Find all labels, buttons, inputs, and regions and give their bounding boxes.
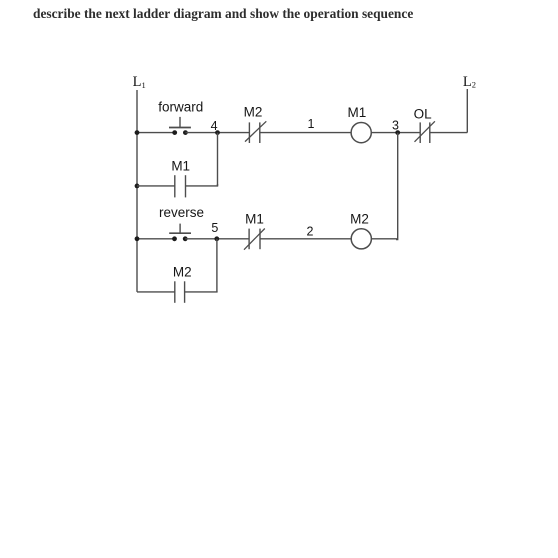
label node 3 [392,119,399,133]
junction dot rail L1 / rung 2 [135,236,140,241]
rail L2 [466,89,468,133]
node 3 junction dot [395,130,400,135]
contact M1 normally-closed (rung 2) [244,229,265,250]
wire holding branch M2 left (L1 to contact M2) [137,291,175,293]
label M1 (coil rung 1) [348,105,367,120]
svg-text:describe the next ladder diagr: describe the next ladder diagram and sho… [33,6,413,21]
label L1 [133,74,146,90]
label forward [158,99,203,114]
wire contact M2 to coil M1 [260,132,351,134]
coil M2 [351,229,371,249]
svg-text:2: 2 [307,224,314,238]
wire coil M1 to contact OL [372,132,421,134]
wire riser node 4 to holding branch [217,133,219,186]
node 4 junction dot [215,130,220,135]
contact M1 normally-open (holding) [175,175,186,197]
label OL [414,107,433,122]
wire reverse button to contact M1 [185,238,249,240]
label M2 (NC contact rung 1) [244,105,263,120]
svg-text:forward: forward [158,99,203,114]
wire forward button to contact M2 [185,132,249,134]
contact OL normally-closed (overload) [415,121,435,143]
contact M2 normally-open (holding) [175,281,185,303]
svg-text:3: 3 [392,119,399,133]
label node 4 [211,119,218,133]
wire contact OL to rail L2 [430,132,468,134]
label M2 (coil rung 2) [350,212,369,227]
junction dot rail L1 / rung 1 [135,130,140,135]
label node 2 [307,224,314,238]
svg-text:OL: OL [414,107,433,122]
coil M1 [351,123,371,143]
wire rung 1 from L1 to forward button [137,132,175,134]
svg-text:reverse: reverse [159,205,204,220]
wire holding branch right (contact M1 to node 4 riser) [186,184,219,186]
svg-text:M2: M2 [173,265,192,280]
label M2 (holding contact) [173,265,192,280]
svg-text:M1: M1 [171,158,190,173]
node 5 junction dot [214,236,219,241]
label node 5 [211,221,218,235]
label M1 (holding contact) [171,158,190,173]
pushbutton reverse (NO momentary) [169,224,191,242]
pushbutton forward (NO momentary) [169,117,191,135]
svg-text:M1: M1 [245,212,264,227]
rail L1 [136,90,138,292]
svg-text:5: 5 [211,221,218,235]
svg-text:M1: M1 [348,105,367,120]
label reverse [159,205,204,220]
label M1 (NC contact rung 2) [245,212,264,227]
wire coil M2 to node 3 riser [372,238,398,240]
label node 1 [308,117,315,131]
svg-text:4: 4 [211,119,218,133]
svg-text:M2: M2 [244,105,263,120]
svg-text:M2: M2 [350,212,369,227]
wire holding branch M2 right (contact M2 to node 5 riser) [185,291,218,293]
wire holding branch left (L1 to contact M1) [137,185,175,187]
svg-text:1: 1 [308,117,315,131]
label L2 [463,74,476,90]
wire riser node 5 to holding branch M2 [216,239,218,292]
wire contact M1 to coil M2 [260,238,351,240]
wire riser node 3 to rung 2 [396,133,398,240]
contact M2 normally-closed [245,121,266,143]
junction dot rail L1 / holding branch M1 [135,184,140,189]
wire rung 2 from L1 to reverse button [137,238,175,240]
